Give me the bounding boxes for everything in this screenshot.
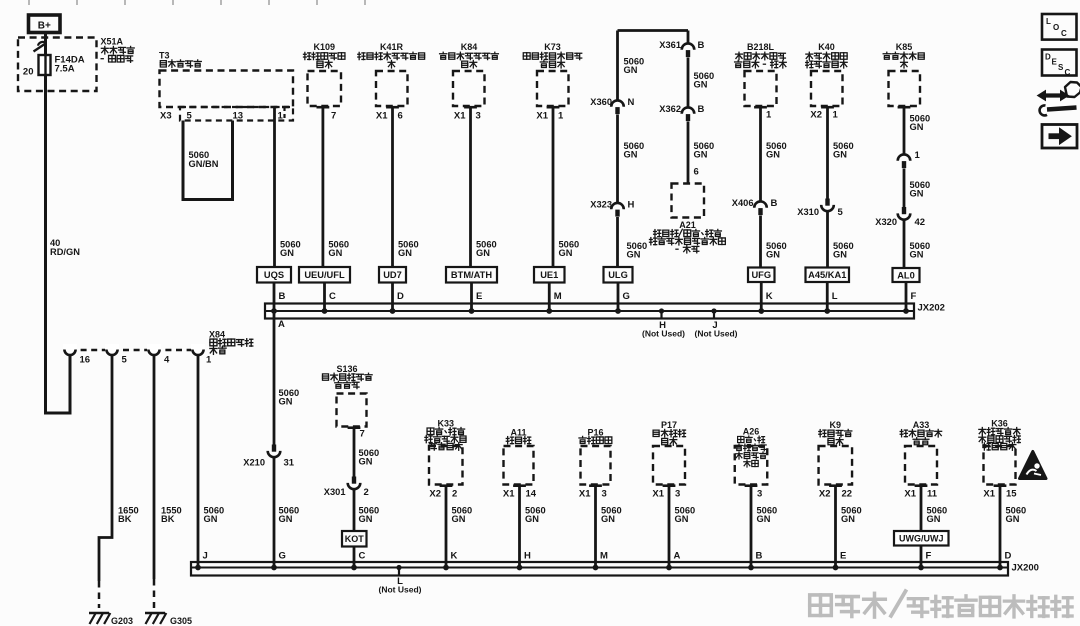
svg-text:X51A: X51A [101, 37, 124, 47]
svg-text:B: B [771, 198, 778, 209]
svg-text:GN: GN [398, 248, 412, 258]
svg-text:GN: GN [910, 250, 924, 260]
svg-text:J: J [203, 551, 208, 562]
svg-text:X310: X310 [797, 207, 819, 217]
svg-text:A45/KA1: A45/KA1 [808, 270, 846, 280]
svg-text:X84: X84 [209, 330, 225, 340]
svg-text:42: 42 [915, 217, 926, 228]
svg-text:GN: GN [910, 189, 924, 199]
svg-text:B+: B+ [38, 20, 51, 31]
svg-text:UD7: UD7 [383, 270, 402, 280]
svg-text:G: G [279, 551, 286, 562]
svg-text:K85: K85 [896, 42, 913, 52]
svg-text:S136: S136 [336, 364, 357, 374]
svg-text:UE1: UE1 [540, 270, 558, 280]
svg-text:K109: K109 [314, 42, 336, 52]
svg-text:GN: GN [359, 457, 373, 467]
svg-text:GN: GN [328, 248, 342, 258]
svg-text:C: C [359, 551, 366, 562]
svg-text:GN: GN [833, 150, 847, 160]
svg-text:C: C [1065, 68, 1071, 77]
svg-text:GN: GN [452, 514, 466, 524]
svg-text:3: 3 [476, 111, 481, 122]
svg-text:4: 4 [164, 355, 170, 366]
svg-text:GN: GN [627, 250, 641, 260]
svg-text:KOT: KOT [345, 534, 365, 544]
svg-text:JX200: JX200 [1012, 563, 1039, 574]
svg-text:X1: X1 [536, 111, 548, 122]
svg-text:GN: GN [280, 248, 294, 258]
svg-text:X1: X1 [652, 489, 664, 500]
svg-text:X2: X2 [810, 110, 822, 121]
svg-text:K33: K33 [437, 419, 454, 429]
svg-text:2: 2 [452, 489, 457, 500]
svg-text:L: L [832, 291, 838, 302]
svg-text:A: A [674, 551, 681, 562]
svg-text:X3: X3 [160, 111, 172, 122]
svg-text:B: B [698, 40, 705, 51]
svg-text:K36: K36 [991, 419, 1008, 429]
svg-text:(Not Used): (Not Used) [379, 585, 422, 595]
svg-text:2: 2 [364, 487, 369, 498]
svg-text:C: C [329, 291, 336, 302]
svg-text:BK: BK [161, 514, 175, 524]
svg-text:6: 6 [398, 111, 403, 122]
svg-text:M: M [554, 291, 562, 302]
svg-text:GN: GN [476, 248, 490, 258]
svg-text:E: E [840, 551, 846, 562]
svg-text:13: 13 [233, 111, 244, 122]
svg-text:X1: X1 [503, 489, 515, 500]
svg-text:F: F [911, 291, 917, 302]
svg-text:ULG: ULG [608, 270, 628, 280]
svg-text:UFG: UFG [751, 270, 771, 280]
svg-text:(Not Used): (Not Used) [642, 329, 685, 339]
svg-text:X406: X406 [732, 198, 754, 208]
svg-text:K84: K84 [461, 42, 478, 52]
svg-text:P16: P16 [587, 427, 603, 437]
svg-text:6: 6 [694, 167, 699, 178]
svg-text:M: M [600, 551, 608, 562]
svg-text:A21: A21 [679, 220, 696, 230]
svg-text:1: 1 [206, 355, 212, 366]
svg-text:UQS: UQS [264, 270, 284, 280]
svg-text:L: L [1046, 17, 1051, 26]
svg-text:X360: X360 [590, 97, 612, 107]
svg-text:1: 1 [278, 111, 284, 122]
svg-text:AL0: AL0 [897, 270, 915, 280]
svg-text:S: S [1058, 63, 1064, 72]
svg-text:G: G [623, 291, 630, 302]
svg-text:X301: X301 [324, 487, 346, 497]
svg-text:GN: GN [279, 514, 293, 524]
svg-text:GN: GN [204, 514, 218, 524]
svg-text:K41R: K41R [380, 42, 404, 52]
svg-text:UWG/UWJ: UWG/UWJ [899, 534, 944, 544]
svg-text:BK: BK [118, 514, 132, 524]
svg-text:GN: GN [601, 514, 615, 524]
svg-text:RD/GN: RD/GN [50, 247, 80, 257]
svg-text:B: B [756, 551, 763, 562]
svg-text:GN: GN [359, 514, 373, 524]
svg-text:X362: X362 [659, 104, 681, 114]
svg-text:F: F [926, 551, 932, 562]
svg-text:(Not Used): (Not Used) [695, 329, 738, 339]
svg-text:D: D [1045, 53, 1051, 62]
svg-text:GN: GN [766, 250, 780, 260]
svg-text:GN: GN [624, 150, 638, 160]
svg-text:GN: GN [910, 122, 924, 132]
svg-text:T3: T3 [159, 51, 170, 61]
svg-text:K73: K73 [544, 42, 561, 52]
svg-text:D: D [397, 291, 404, 302]
svg-text:GN: GN [833, 250, 847, 260]
svg-text:31: 31 [284, 458, 295, 469]
svg-text:1: 1 [833, 110, 839, 121]
svg-text:GN: GN [559, 248, 573, 258]
svg-text:GN: GN [841, 514, 855, 524]
svg-text:K: K [766, 291, 773, 302]
svg-text:C: C [1061, 29, 1067, 38]
svg-text:7.5A: 7.5A [55, 64, 75, 75]
svg-text:16: 16 [80, 355, 91, 366]
svg-text:GN: GN [694, 150, 708, 160]
svg-text:K40: K40 [818, 42, 835, 52]
svg-text:P17: P17 [661, 420, 677, 430]
svg-text:D: D [1005, 551, 1012, 562]
svg-text:X320: X320 [875, 217, 897, 227]
svg-text:15: 15 [1006, 489, 1017, 500]
svg-text:GN: GN [694, 80, 708, 90]
svg-text:X210: X210 [243, 458, 265, 468]
svg-text:E: E [1052, 58, 1058, 67]
svg-text:X361: X361 [659, 40, 681, 50]
svg-text:H: H [524, 551, 531, 562]
svg-text:11: 11 [927, 489, 938, 500]
svg-text:GN: GN [279, 397, 293, 407]
svg-text:3: 3 [757, 489, 762, 500]
svg-text:7: 7 [331, 111, 336, 122]
svg-text:X1: X1 [579, 489, 591, 500]
svg-text:B218L: B218L [747, 42, 775, 52]
svg-text:5: 5 [122, 355, 128, 366]
svg-text:A11: A11 [510, 427, 526, 437]
svg-text:X1: X1 [454, 111, 466, 122]
svg-text:1: 1 [766, 110, 772, 121]
svg-text:O: O [1053, 23, 1059, 32]
svg-text:GN: GN [624, 65, 638, 75]
svg-text:X323: X323 [590, 200, 612, 210]
svg-text:B: B [698, 104, 705, 115]
svg-text:5: 5 [187, 111, 193, 122]
svg-text:BTM/ATH: BTM/ATH [451, 270, 492, 280]
svg-text:K9: K9 [830, 420, 842, 430]
svg-text:E: E [476, 291, 482, 302]
svg-text:22: 22 [842, 489, 853, 500]
svg-text:GN: GN [525, 514, 539, 524]
svg-text:UEU/UFL: UEU/UFL [304, 270, 345, 280]
svg-text:GN: GN [757, 514, 771, 524]
svg-text:GN: GN [1006, 514, 1020, 524]
svg-text:X1: X1 [376, 111, 388, 122]
svg-text:GN/BN: GN/BN [189, 159, 219, 169]
svg-text:K: K [451, 551, 458, 562]
svg-text:3: 3 [675, 489, 680, 500]
svg-text:GN: GN [675, 514, 689, 524]
svg-text:7: 7 [360, 429, 365, 440]
svg-text:B: B [279, 291, 286, 302]
svg-text:1: 1 [558, 111, 564, 122]
svg-text:1: 1 [915, 150, 921, 161]
svg-text:20: 20 [23, 67, 34, 78]
svg-text:A33: A33 [913, 420, 930, 430]
svg-text:X1: X1 [904, 489, 916, 500]
svg-text:5: 5 [838, 207, 844, 218]
svg-text:X2: X2 [429, 489, 441, 500]
svg-text:G305: G305 [170, 616, 192, 626]
svg-text:JX202: JX202 [918, 303, 945, 314]
svg-text:A26: A26 [743, 427, 760, 437]
svg-text:H: H [628, 200, 635, 211]
svg-text:GN: GN [766, 150, 780, 160]
svg-text:3: 3 [602, 489, 607, 500]
svg-text:X1: X1 [983, 489, 995, 500]
svg-text:X2: X2 [819, 489, 831, 500]
svg-text:A: A [278, 319, 285, 330]
svg-text:G203: G203 [111, 616, 133, 626]
svg-text:GN: GN [927, 514, 941, 524]
svg-text:N: N [628, 97, 635, 108]
svg-text:14: 14 [526, 489, 537, 500]
